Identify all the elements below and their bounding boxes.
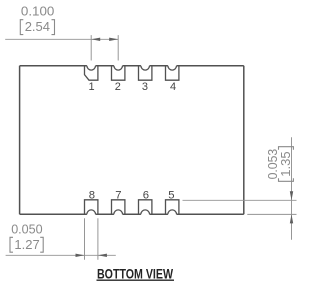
dim 0.050 extension lines: [85, 218, 98, 259]
svg-text:8: 8: [89, 189, 95, 201]
dim 0.050 dimension line: [6, 254, 116, 256]
pads pins 2-4: [112, 66, 179, 80]
dim 0.100 dimension line: [5, 38, 118, 40]
svg-text:1.27: 1.27: [14, 237, 39, 252]
dim 0.050 arrowheads (outside, pointing inward): [76, 254, 85, 257]
svg-text:6: 6: [143, 189, 149, 201]
svg-text:5: 5: [168, 189, 174, 201]
svg-text:0.050: 0.050: [11, 221, 42, 236]
svg-text:2.54: 2.54: [25, 19, 50, 34]
dim 0.053 extension lines: [183, 200, 297, 214]
pads pins 8,7,6,5 (bottom row, open bottom): [85, 200, 179, 214]
svg-text:3: 3: [142, 81, 148, 93]
pad pin 1 (chamfered): [85, 66, 98, 80]
dim 0.100 extension lines: [91, 35, 118, 60]
svg-text:2: 2: [115, 81, 121, 93]
svg-text:1: 1: [89, 81, 95, 93]
package body outline (top edge with notch gaps): [20, 66, 244, 214]
castellation notches pins 1-8: [87, 66, 177, 214]
dim 0.053 arrowheads (outside, pointing inward): [290, 191, 293, 200]
svg-text:BOTTOM VIEW: BOTTOM VIEW: [97, 266, 173, 281]
dim text [1.35] (rotated): [278, 147, 294, 182]
svg-text:0.100: 0.100: [21, 4, 55, 19]
svg-text:1.35: 1.35: [278, 151, 293, 176]
dim 0.053 dimension line: [291, 137, 293, 240]
svg-text:4: 4: [170, 81, 176, 93]
svg-text:7: 7: [115, 189, 121, 201]
dim 0.100 arrowheads (inside, pointing outward): [91, 38, 100, 41]
